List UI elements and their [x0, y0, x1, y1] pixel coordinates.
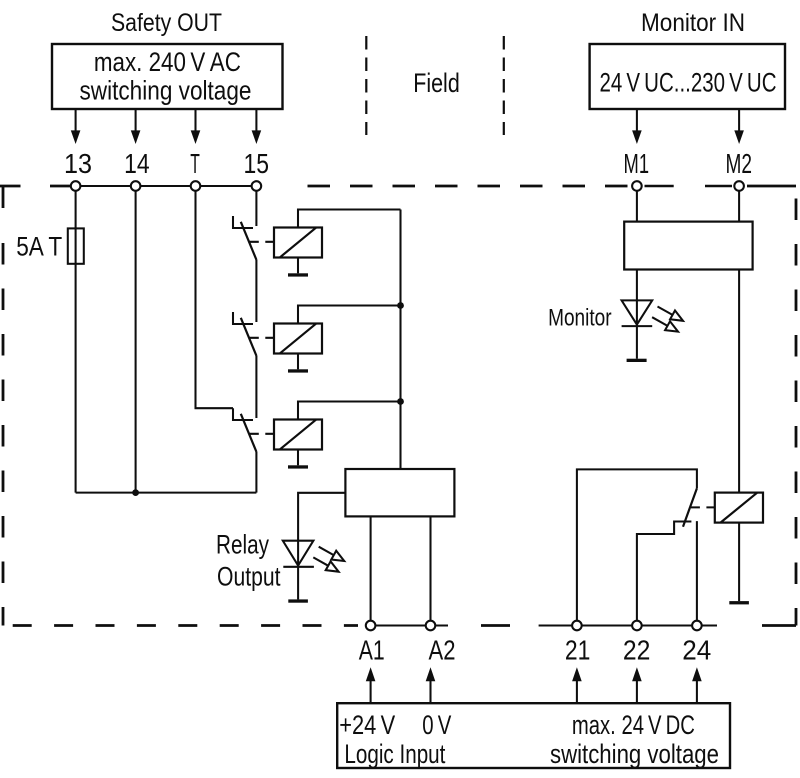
wire coil K1 bottom [297, 258, 299, 274]
wire M2 down to monitor block [738, 186, 740, 222]
svg-text:Logic Input: Logic Input [344, 739, 445, 769]
wire terminal 24 up NO contact [696, 521, 698, 625]
ground coil K4 [729, 601, 749, 604]
terminal 14 [131, 181, 141, 191]
svg-text:Safety OUT: Safety OUT [111, 9, 222, 37]
svg-text:M1: M1 [624, 148, 650, 179]
LED relay output emission arrow 2 [313, 557, 338, 571]
wire coil K2 bottom [297, 354, 299, 370]
changeover contact blade [683, 489, 697, 527]
relay coil K1 [274, 228, 322, 258]
wire coil K4 bottom [738, 523, 740, 602]
arrow down to terminal 13 [71, 109, 81, 144]
box bottom supply [337, 703, 730, 768]
ground LED relay output [288, 599, 308, 602]
wire monitor block to LED [636, 270, 638, 301]
border solid segment across terminals 21-22-24 [539, 624, 717, 626]
svg-text:22: 22 [623, 635, 651, 666]
terminal T [191, 181, 201, 191]
box max 240VAC switching voltage [52, 44, 283, 109]
svg-text:switching voltage: switching voltage [80, 75, 252, 105]
terminal 22 [632, 621, 642, 631]
arrow up to 24 [692, 667, 702, 703]
mechanical link contact 1 to coil K1 [249, 241, 274, 243]
svg-text:Relay: Relay [216, 529, 269, 559]
field boundary dashed line right [503, 36, 505, 135]
control logic block [345, 469, 454, 516]
terminal M2 [734, 181, 744, 191]
arrow down to terminal M2 [734, 109, 744, 144]
svg-text:24 V UC...230 V UC: 24 V UC...230 V UC [600, 68, 777, 98]
fuse F1 [68, 228, 84, 263]
LED monitor cathode bar [622, 325, 653, 327]
svg-text:24: 24 [682, 635, 711, 666]
wire contact2 to contact 3 [255, 356, 257, 418]
LED monitor stem [636, 300, 638, 358]
LED monitor emission arrow 2 [652, 317, 678, 331]
svg-text:5A T: 5A T [16, 232, 62, 262]
LED relay output emission arrow 1 [319, 547, 345, 561]
LED relay output cathode bar [283, 566, 314, 568]
arrow up to 21 [572, 667, 582, 703]
wire block to A2 [429, 516, 431, 626]
relay coil K3 [274, 420, 322, 450]
NO contact 2 fixed hook [233, 312, 253, 324]
junction dot 14 [132, 489, 139, 496]
terminal 24 [692, 621, 702, 631]
terminal A1 [366, 621, 376, 631]
arrow down to terminal 14 [131, 109, 141, 144]
border solid segment across terminals A1-A2 [365, 624, 448, 626]
arrow down to terminal M1 [632, 109, 642, 144]
wire 14 down [135, 186, 137, 493]
mechanical link contact 3 to coil K3 [249, 433, 274, 435]
svg-text:Field: Field [413, 68, 460, 98]
wire terminal 21 up and over [577, 469, 697, 625]
wire bottom horizontal 13-14-contact3 [76, 492, 257, 494]
LED monitor triangle [622, 300, 653, 324]
mechanical link contact 2 to coil K2 [249, 337, 274, 339]
ground coil K3 [288, 465, 308, 468]
svg-text:15: 15 [244, 148, 270, 179]
svg-text:Output: Output [217, 562, 281, 592]
wire contact3 down to node row [255, 452, 257, 493]
svg-text:switching voltage: switching voltage [550, 739, 719, 769]
wire M1 down to monitor block [636, 186, 638, 222]
svg-text:0 V: 0 V [422, 710, 451, 740]
relay coil K2 [274, 324, 322, 354]
wire coil K2 top to bus [298, 306, 401, 324]
terminal 13 [71, 181, 81, 191]
NO contact 2 blade [241, 318, 257, 356]
svg-text:A1: A1 [359, 635, 385, 666]
relay coil K4 monitor [715, 493, 763, 523]
ground LED monitor [627, 359, 647, 362]
coil bus vertical [399, 210, 401, 469]
wire coil K3 bottom [297, 450, 299, 466]
svg-text:14: 14 [124, 148, 150, 179]
NO contact 3 fixed hook [233, 408, 253, 420]
ground coil K1 [288, 273, 308, 276]
LED relay output triangle [283, 541, 314, 566]
terminal A2 [426, 621, 436, 631]
svg-text:T: T [190, 148, 200, 179]
svg-text:Monitor: Monitor [548, 304, 612, 331]
monitor input block [624, 222, 752, 270]
wire 15 to contact 1 [255, 186, 257, 226]
terminal 15 [252, 181, 262, 191]
wire coil K1 top to bus [298, 210, 401, 228]
wire 13 to fuse to node row [75, 186, 77, 493]
junction dot bus coil K2 [397, 302, 404, 309]
terminal 21 [572, 621, 582, 631]
device border dashed outline [0, 186, 796, 626]
mechanical link coil K4 to changeover contact [691, 506, 715, 508]
wire block to A1 [370, 516, 372, 626]
arrow up to A1 [366, 667, 376, 703]
svg-text:M2: M2 [726, 148, 753, 179]
wire M2 branch down to monitor relay coil [738, 270, 740, 493]
ground coil K2 [288, 369, 308, 372]
svg-text:A2: A2 [429, 635, 456, 666]
arrow up to 22 [632, 667, 642, 703]
arrow down to terminal T [191, 109, 201, 144]
terminal M1 [632, 181, 642, 191]
svg-text:+24 V: +24 V [339, 710, 395, 740]
svg-text:21: 21 [565, 635, 591, 666]
svg-text:max. 24 V DC: max. 24 V DC [572, 710, 695, 740]
junction dot bus coil K3 [397, 398, 404, 405]
box 24VUC-230VUC [590, 44, 785, 109]
border solid segment across terminals 13-15 [70, 185, 262, 187]
wire T down [196, 186, 234, 408]
field boundary dashed line left [365, 36, 367, 135]
arrow up to A2 [426, 667, 436, 703]
svg-text:Monitor IN: Monitor IN [641, 9, 745, 37]
wire terminal 22 up to NC contact step [637, 522, 692, 626]
arrow down to terminal 15 [252, 109, 262, 144]
NO contact 1 blade [241, 222, 257, 260]
wire coil K3 top to bus [298, 402, 401, 420]
LED relay output stem [297, 541, 299, 600]
wire block to relay output LED [298, 493, 345, 541]
NO contact 3 blade [241, 414, 257, 452]
NO contact 1 fixed hook [233, 216, 253, 228]
LED monitor emission arrow 1 [658, 307, 684, 321]
svg-text:13: 13 [64, 148, 92, 179]
wire contact1 to contact 2 [255, 260, 257, 322]
svg-text:max. 240 V AC: max. 240 V AC [94, 47, 241, 77]
